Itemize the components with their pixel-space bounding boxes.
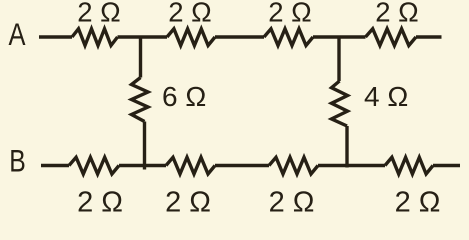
value label 2Ω (R6): [165, 186, 211, 218]
resistor R6 2Ω bottom row second: [166, 157, 215, 174]
value label 2Ω (R1): [77, 0, 121, 27]
svg-text:2 Ω: 2 Ω: [165, 186, 211, 218]
value label 2Ω (R8): [395, 186, 441, 218]
wire top between R1 and R2: [118, 35, 168, 38]
node B: [9, 143, 26, 179]
svg-text:A: A: [9, 16, 26, 52]
resistor R8 2Ω bottom row fourth: [385, 157, 433, 174]
value label 2Ω (R7): [269, 186, 315, 218]
svg-text:2 Ω: 2 Ω: [375, 0, 419, 27]
resistor R10 4Ω right vertical branch: [332, 81, 348, 126]
resistor R5 2Ω bottom row first: [69, 157, 119, 174]
resistor R3 2Ω top row third: [264, 29, 313, 46]
value label 2Ω (R3): [268, 0, 312, 27]
wire top-right end: [416, 35, 442, 38]
svg-text:2 Ω: 2 Ω: [395, 186, 441, 218]
wire A lead (top-left): [39, 35, 72, 38]
wire left branch upper lead: [139, 36, 142, 78]
wire left branch lower lead (to bottom rail junction): [143, 122, 146, 170]
svg-text:2 Ω: 2 Ω: [77, 0, 121, 27]
svg-text:B: B: [9, 143, 26, 179]
svg-text:2 Ω: 2 Ω: [268, 0, 312, 27]
wire bottom between R5 and R6: [119, 164, 166, 167]
wire right branch lower lead (to bottom rail junction): [345, 126, 348, 168]
resistor R4 2Ω top row fourth: [366, 29, 417, 46]
wire bottom-right end: [433, 164, 460, 167]
wire right branch upper lead: [337, 36, 340, 82]
value label 2Ω (R4): [375, 0, 419, 27]
value label 2Ω (R5): [77, 186, 123, 218]
wire B lead (bottom-left): [41, 164, 69, 167]
svg-text:6 Ω: 6 Ω: [162, 81, 206, 112]
resistor R9 6Ω left vertical branch: [132, 78, 149, 122]
svg-text:2 Ω: 2 Ω: [269, 186, 315, 218]
resistor R2 2Ω top row second: [167, 29, 215, 46]
wire bottom between R6 and R7: [215, 164, 269, 167]
value label 6Ω (R9): [162, 81, 206, 112]
wire bottom between R7 and R8: [318, 164, 385, 167]
node A: [9, 16, 26, 52]
svg-text:2 Ω: 2 Ω: [77, 186, 123, 218]
value label 2Ω (R2): [168, 0, 212, 27]
svg-text:4 Ω: 4 Ω: [364, 81, 408, 112]
svg-text:2 Ω: 2 Ω: [168, 0, 212, 27]
wire top between R3 and R4: [313, 35, 366, 38]
wire top between R2 and R3: [215, 35, 264, 38]
resistor R1 2Ω top row first: [72, 29, 118, 46]
value label 4Ω (R10): [364, 81, 408, 112]
resistor R7 2Ω bottom row third: [269, 157, 318, 174]
